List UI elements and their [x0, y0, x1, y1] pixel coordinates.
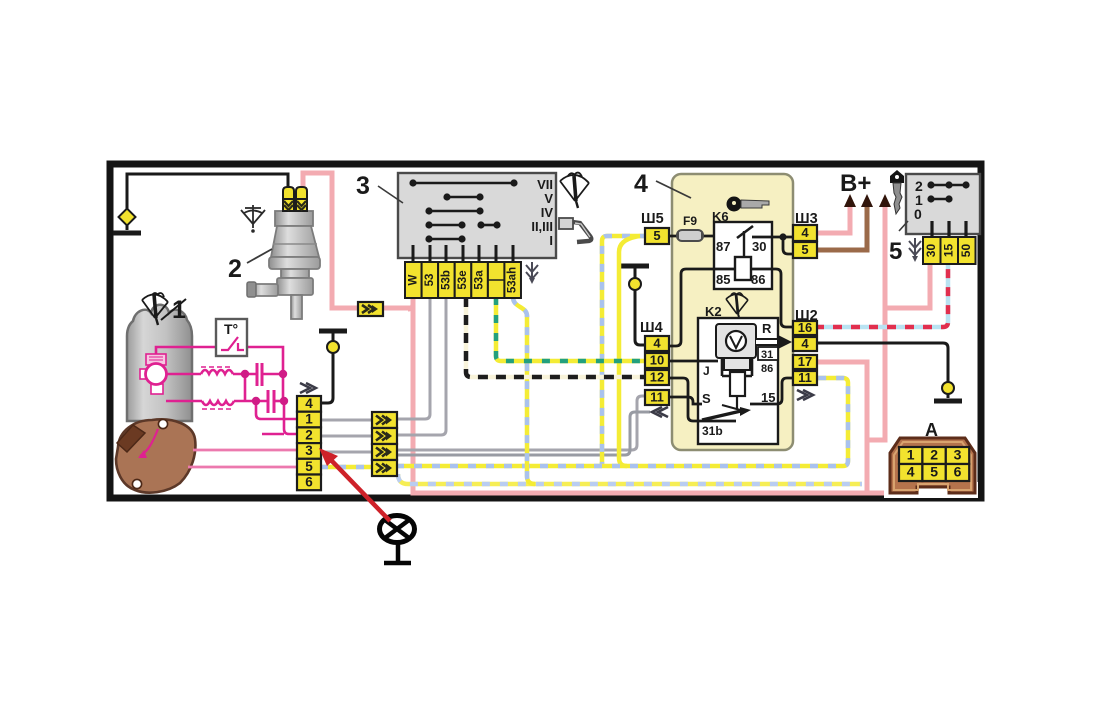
connector Sh3 pin 5 — [793, 242, 817, 258]
svg-text:4: 4 — [801, 225, 809, 240]
svg-text:86: 86 — [751, 272, 765, 287]
wire: pink sh3 pin4 to B+ arrow1 — [815, 206, 850, 233]
svg-text:W: W — [407, 274, 419, 285]
wire: pink ignition pin30 branch — [886, 263, 930, 308]
svg-text:S: S — [702, 391, 711, 406]
svg-text:Ш4: Ш4 — [640, 320, 663, 336]
switch 3 pin W cell — [405, 262, 422, 298]
inline connector stack cell 1 — [372, 412, 397, 428]
connector Sh2 pin 4 — [793, 337, 817, 351]
svg-text:F9: F9 — [683, 214, 697, 228]
svg-text:4: 4 — [907, 464, 915, 480]
svg-text:J: J — [703, 364, 710, 378]
ignition pin 30 cell — [923, 237, 941, 264]
svg-text:A: A — [925, 420, 938, 440]
wiper motor connector pin 6 — [297, 475, 321, 491]
ignition contact position 1 row — [915, 192, 953, 208]
continuation chevron above motor connector — [300, 383, 316, 393]
svg-text:4: 4 — [634, 170, 648, 198]
svg-text:17: 17 — [798, 354, 812, 369]
wiper motor connector pin 2 — [297, 427, 321, 443]
wire: gray stack cell1 to switch pin 53 — [396, 297, 430, 419]
svg-text:87: 87 — [716, 239, 730, 254]
svg-text:2: 2 — [228, 255, 242, 283]
svg-text:K2: K2 — [705, 304, 722, 319]
ignition contact position 2 row — [915, 178, 970, 194]
svg-text:1: 1 — [907, 447, 915, 463]
svg-text:IV: IV — [541, 205, 554, 220]
wiper motor connector pin 5 — [297, 459, 321, 475]
motor magenta top wire through thermal fuse — [156, 347, 283, 374]
wire: yellow-blue dashed long run stack cell4 to sh2 pin11 — [396, 378, 848, 466]
wire: gray motor pin2 to inline stack cell2 — [320, 435, 373, 438]
switch 3 contact row II,III — [425, 219, 553, 234]
wire: gray second run to continuation chevron at sh4 — [396, 412, 650, 455]
label 5 with pointer — [899, 221, 908, 231]
switch 3 pin 53e cell — [455, 262, 472, 298]
thermal protector T box — [216, 319, 247, 356]
wire: pink sh2 pin17 right then down to bottom run — [815, 362, 867, 492]
wire: plain yellow branch from sh5 run down to lower dashed run — [619, 236, 640, 466]
motor magenta armature row 2 with inductor and capacitor — [166, 390, 284, 413]
connector Sh2 pin 11 — [793, 371, 817, 385]
node: yellow point on sh4 ground wire — [629, 278, 641, 290]
wire: black sh4 pin10 into K2 module — [668, 360, 718, 363]
continuation chevron below sh4 pin11 — [652, 407, 668, 417]
stalk lever icon — [559, 218, 591, 242]
svg-text:0: 0 — [914, 206, 922, 222]
wire: gray motor pin1 to inline stack cell1 — [320, 419, 373, 422]
connector Sh4 pin 12 — [645, 370, 669, 385]
border frame — [110, 164, 981, 498]
label 4 with pointer — [656, 181, 691, 198]
svg-text:5: 5 — [653, 228, 660, 243]
svg-text:86: 86 — [761, 363, 773, 375]
wiper motor connector pin 1 — [297, 412, 321, 428]
ignition pin 50 cell — [958, 237, 976, 264]
connector A housing — [884, 482, 978, 498]
svg-text:3: 3 — [356, 172, 370, 200]
svg-text:VII: VII — [537, 177, 553, 192]
switch 3 contact row I — [425, 233, 553, 248]
svg-text:5: 5 — [930, 464, 938, 480]
svg-text:II,III: II,III — [531, 219, 553, 234]
wire: yellow-blue dashed from switch pin 53ah down to lower run — [513, 297, 535, 484]
connector A pin 5 — [922, 464, 945, 481]
svg-text:4: 4 — [305, 396, 313, 411]
svg-text:3: 3 — [954, 447, 962, 463]
switch 3 pin 53a cell — [471, 262, 488, 298]
wire: gray motor pin3 to inline stack cell3 — [320, 451, 373, 454]
wire: black ground above motor connector pin4 — [320, 331, 333, 403]
connector Sh2 pin 16 — [793, 321, 817, 335]
key icon mounting block — [727, 197, 770, 212]
svg-text:2: 2 — [930, 447, 938, 463]
inline connector stack cell 3 — [372, 444, 397, 460]
connector Sh2 pin 17 — [793, 355, 817, 369]
svg-text:5: 5 — [801, 242, 808, 257]
connector Sh4 pin 11 — [645, 390, 669, 405]
svg-text:31: 31 — [761, 349, 773, 361]
label 31 in box — [758, 347, 778, 360]
switch 3 pin 53b cell — [438, 262, 455, 298]
B+ arrow 3 — [879, 194, 891, 207]
switch 3 pin 53ah cell — [504, 262, 521, 298]
svg-text:15: 15 — [941, 244, 955, 258]
wire: black K6 coil 86 to sh2 pin16 — [751, 269, 794, 327]
node: yellow point on motor ground wire — [327, 341, 339, 353]
warning lamp symbol — [380, 516, 415, 564]
svg-text:4: 4 — [801, 336, 809, 351]
wiper motor connector pin 4 — [297, 396, 321, 412]
connector Sh3 pin 4 — [793, 225, 817, 241]
continuation chevron below sh2 pin11 — [797, 390, 813, 400]
relay K2 outer box — [698, 318, 778, 444]
inline connector stack cell 2 — [372, 428, 397, 444]
B+ arrow 1 — [844, 194, 856, 207]
washer pump 2 body — [247, 211, 320, 319]
svg-text:11: 11 — [650, 389, 664, 404]
svg-text:B+: B+ — [840, 170, 871, 197]
svg-text:50: 50 — [959, 244, 973, 258]
switch 3 contact row VII — [409, 177, 553, 192]
switch 3 contact row V — [443, 191, 553, 206]
relay K6 contact arm — [737, 226, 753, 238]
ground symbol right — [934, 399, 962, 404]
node: junction dot K6 30 — [779, 233, 786, 240]
svg-text:R: R — [762, 321, 772, 336]
label 2 with pointer — [247, 249, 272, 263]
red pointer arrow to motor pin3 — [319, 448, 390, 521]
svg-text:11: 11 — [798, 370, 812, 385]
svg-text:16: 16 — [798, 320, 812, 335]
svg-text:2: 2 — [305, 427, 313, 442]
ground symbol sh4 pin4 — [621, 264, 649, 269]
crank arrow magenta — [140, 429, 158, 456]
connector A pin 2 — [922, 447, 945, 464]
K2 coil with U link — [722, 358, 752, 376]
motor magenta armature row 1 with inductor and capacitor — [166, 363, 283, 386]
svg-text:12: 12 — [650, 369, 664, 384]
wire: black sh2 pin4 to right ground — [815, 343, 948, 398]
label 1 pointer — [161, 299, 186, 320]
ground symbol motor pin4 — [319, 329, 347, 334]
wire: yellow-blue dashed sh5 pin5 going left and down — [602, 236, 648, 466]
wiper icon near motor — [142, 293, 168, 325]
relay K6 box — [714, 222, 772, 289]
connector Sh4 pin 10 — [645, 353, 669, 368]
intermittent symbol at ignition — [909, 238, 921, 262]
svg-text:53: 53 — [424, 274, 436, 287]
wire: gray stack cell2 to switch pin 53b — [396, 297, 446, 435]
wiper icon near relay K2 — [726, 293, 748, 317]
svg-text:K6: K6 — [712, 209, 729, 224]
washer jet spray icon — [241, 205, 265, 233]
motor magenta link wires and junctions — [245, 374, 298, 434]
wire: black K6 coil 85 to sh4 pin4 ground — [668, 269, 735, 346]
ignition switch 5 box — [906, 174, 980, 234]
wiper switch 3 box — [398, 173, 556, 258]
wire: black ground above sh4 pin4 — [635, 267, 649, 345]
svg-text:53e: 53e — [457, 270, 469, 289]
inline connector on pump wire — [358, 302, 383, 316]
svg-text:10: 10 — [650, 352, 664, 367]
switch 3 pin stubs — [413, 245, 513, 263]
wire: black sh4 pin12 down to K2 31b contact — [668, 378, 736, 421]
ignition pin stubs — [932, 221, 966, 237]
svg-text:53ah: 53ah — [507, 267, 519, 293]
connector Sh4 pin 4 — [645, 336, 669, 351]
K2 inner module — [716, 324, 756, 358]
node: body connection point left — [119, 209, 136, 226]
wire: pink crank housing to motor pin3 — [193, 449, 298, 452]
relay K6 coil — [735, 257, 751, 280]
K2 moving contact blade — [722, 405, 744, 411]
switch 3 pin 53 cell — [422, 262, 439, 298]
wire: pink B+ arrow3 down, joins ignition pin30 branch, to bottom run — [868, 206, 885, 440]
ignition pin 15 cell — [941, 237, 959, 264]
svg-text:4: 4 — [653, 335, 661, 350]
wire: pink from inline connector to junction under W pin, down and across bottom — [382, 297, 953, 493]
wire: black sh5 pin5 through fuse F9 to relay K6 contact — [668, 235, 737, 238]
connector A pin 3 — [946, 447, 969, 464]
wire: yellow-green dashed switch blank pin to sh4 pin10 — [496, 297, 649, 361]
wire: brown sh3 pin5 to B+ arrow2 — [815, 206, 867, 250]
intermittent symbol at switch 3 row — [526, 262, 538, 284]
svg-text:30: 30 — [752, 239, 766, 254]
wire: black K2 15 contact to sh2 pin11 — [750, 378, 794, 404]
connector Sh5 pin 5 — [645, 228, 669, 244]
ground symbol left — [113, 231, 141, 236]
svg-text:30: 30 — [924, 244, 938, 258]
connector A pin 1 — [899, 447, 922, 464]
key icon ignition — [890, 170, 904, 214]
wiper icon right of switch 3 — [560, 173, 589, 208]
svg-text:I: I — [549, 233, 553, 248]
wire: gray stack cell3 long run to sh4 pin11 — [396, 396, 649, 450]
svg-text:85: 85 — [716, 272, 730, 287]
svg-text:5: 5 — [305, 459, 313, 474]
connector A pin 6 — [946, 464, 969, 481]
svg-text:6: 6 — [305, 474, 313, 489]
switch 3 contact row IV — [425, 205, 553, 220]
svg-text:5: 5 — [889, 238, 902, 265]
wire: yellow-blue dashed motor pin5 to inline stack cell4 — [320, 465, 373, 470]
crank gear housing — [116, 419, 195, 492]
mounting block 4 body — [672, 174, 793, 450]
wire: black K6 pin30 to sh3 pins — [752, 237, 794, 254]
K2 output arrow to sh2 pin4 — [756, 335, 792, 349]
svg-text:53a: 53a — [474, 270, 486, 290]
svg-text:V: V — [544, 191, 553, 206]
wire: black sh4 pin11 into K2 S contact — [668, 397, 702, 404]
inline connector stack cell 4 — [372, 460, 397, 476]
svg-text:6: 6 — [954, 464, 962, 480]
wire: pink crank housing to motor pin5 — [188, 466, 298, 469]
fuse F9 — [677, 230, 703, 241]
svg-text:31b: 31b — [702, 424, 723, 438]
svg-text:T°: T° — [224, 321, 238, 337]
wiper motor connector pin 3 — [297, 443, 321, 459]
svg-text:1: 1 — [172, 296, 186, 324]
svg-text:53b: 53b — [440, 270, 452, 290]
wire: red-blue dashed sh2 pin16 to ignition pin15 — [815, 263, 948, 327]
node: yellow point on right ground wire — [942, 382, 954, 394]
svg-text:1: 1 — [305, 412, 313, 427]
B+ arrow 2 — [861, 194, 873, 207]
switch 3 pin blank cell — [488, 262, 505, 298]
svg-text:Ш5: Ш5 — [641, 211, 664, 227]
label 3 with pointer — [378, 186, 403, 203]
washer pump connector cells — [283, 187, 307, 211]
svg-text:3: 3 — [305, 443, 313, 458]
wire: pink washer pump supply to inline connector and W pin — [303, 173, 360, 308]
wire: yellow-blue dashed second lower run from stack cell4 — [398, 474, 862, 484]
motor symbol circle with brushes — [146, 354, 166, 365]
connector A pin 4 — [899, 464, 922, 481]
wire: black-yellow dashed switch pin 53e to sh4 pin12 — [466, 297, 649, 377]
wire: black ground feed to washer pump 2 — [127, 174, 288, 230]
wire: pink switch pin W short drop to junction — [408, 297, 413, 309]
